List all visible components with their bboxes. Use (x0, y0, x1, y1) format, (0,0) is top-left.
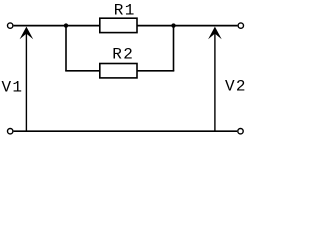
svg-text:V1: V1 (2, 79, 24, 97)
wire top rail right segment (137, 25, 237, 27)
resistor R2 (100, 64, 137, 78)
voltage arrow V2 head (208, 27, 222, 40)
voltage arrow V2 tail (214, 32, 216, 132)
terminal top-right (238, 23, 243, 28)
wire R2 left vertical (65, 26, 67, 71)
label V2 (225, 78, 247, 96)
voltage arrow V1 tail (25, 32, 27, 132)
terminal top-left (8, 23, 13, 28)
svg-text:V2: V2 (225, 78, 247, 96)
terminal bottom-left (8, 129, 13, 134)
svg-text:R1: R1 (114, 2, 136, 20)
svg-text:R2: R2 (112, 46, 134, 64)
node A (junction dot left) (64, 23, 68, 27)
wire top rail left segment (14, 25, 100, 27)
label R1 (114, 2, 136, 20)
wire R2 right lead (137, 70, 174, 72)
terminal bottom-right (238, 129, 243, 134)
wire bottom rail (14, 130, 238, 132)
node B (junction dot right) (171, 23, 175, 27)
wire R2 right vertical (173, 26, 175, 71)
voltage arrow V1 head (20, 27, 34, 40)
wire R2 left lead (65, 70, 99, 72)
label V1 (2, 79, 24, 97)
resistor R1 (100, 18, 137, 32)
label R2 (112, 46, 134, 64)
